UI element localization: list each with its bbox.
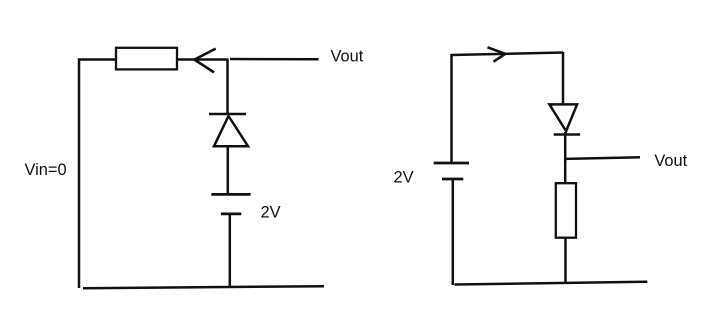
resistor R1 (series resistor, left circuit)	[116, 48, 177, 70]
wire: right circuit left vertical down to battery	[450, 54, 453, 163]
battery B2 negative plate (short)	[442, 178, 463, 181]
current arrow (pointing right) on right circuit top wire	[488, 47, 506, 61]
wire: battery B1 to bottom rail	[229, 214, 232, 288]
wire: left circuit, top horizontal from left corner to resistor and node	[78, 58, 228, 61]
wire: right circuit top horizontal	[451, 53, 563, 56]
wire: left circuit bottom rail	[83, 286, 324, 288]
diode D2 triangle (pointing down)	[549, 104, 577, 131]
svg-text:Vin=0: Vin=0	[25, 161, 67, 179]
wire: Vout lead, left circuit	[230, 58, 319, 61]
svg-text:2V: 2V	[261, 204, 281, 222]
wire: diode D1 anode to battery	[227, 146, 230, 194]
wire: vertical from top node down to diode D1	[226, 59, 229, 115]
svg-text:2V: 2V	[394, 168, 414, 186]
diode D1 triangle (pointing up)	[214, 116, 248, 146]
wire: battery B2 to bottom rail	[452, 179, 455, 285]
wire: Vout lead, right circuit	[565, 157, 640, 159]
battery B2 positive plate (long)	[434, 162, 469, 165]
svg-text:Vout: Vout	[654, 152, 687, 170]
diode D2 cathode bar	[554, 133, 580, 136]
wire: diode D2 to Vout node and resistor R2	[564, 132, 567, 184]
battery B1 positive plate (long)	[211, 193, 250, 196]
svg-text:Vout: Vout	[331, 48, 364, 66]
wire: right circuit bottom rail	[455, 282, 648, 285]
current arrow (pointing left) on left circuit top wire	[194, 49, 215, 73]
diode D1 cathode bar	[209, 113, 246, 116]
wire: resistor R2 to bottom rail	[564, 238, 567, 284]
resistor R2 (load resistor, right circuit)	[556, 183, 576, 238]
wire: left circuit, left vertical branch	[78, 59, 81, 289]
battery B1 negative plate (short)	[221, 212, 241, 215]
wire: right circuit right vertical from top to diode D2	[562, 52, 565, 105]
